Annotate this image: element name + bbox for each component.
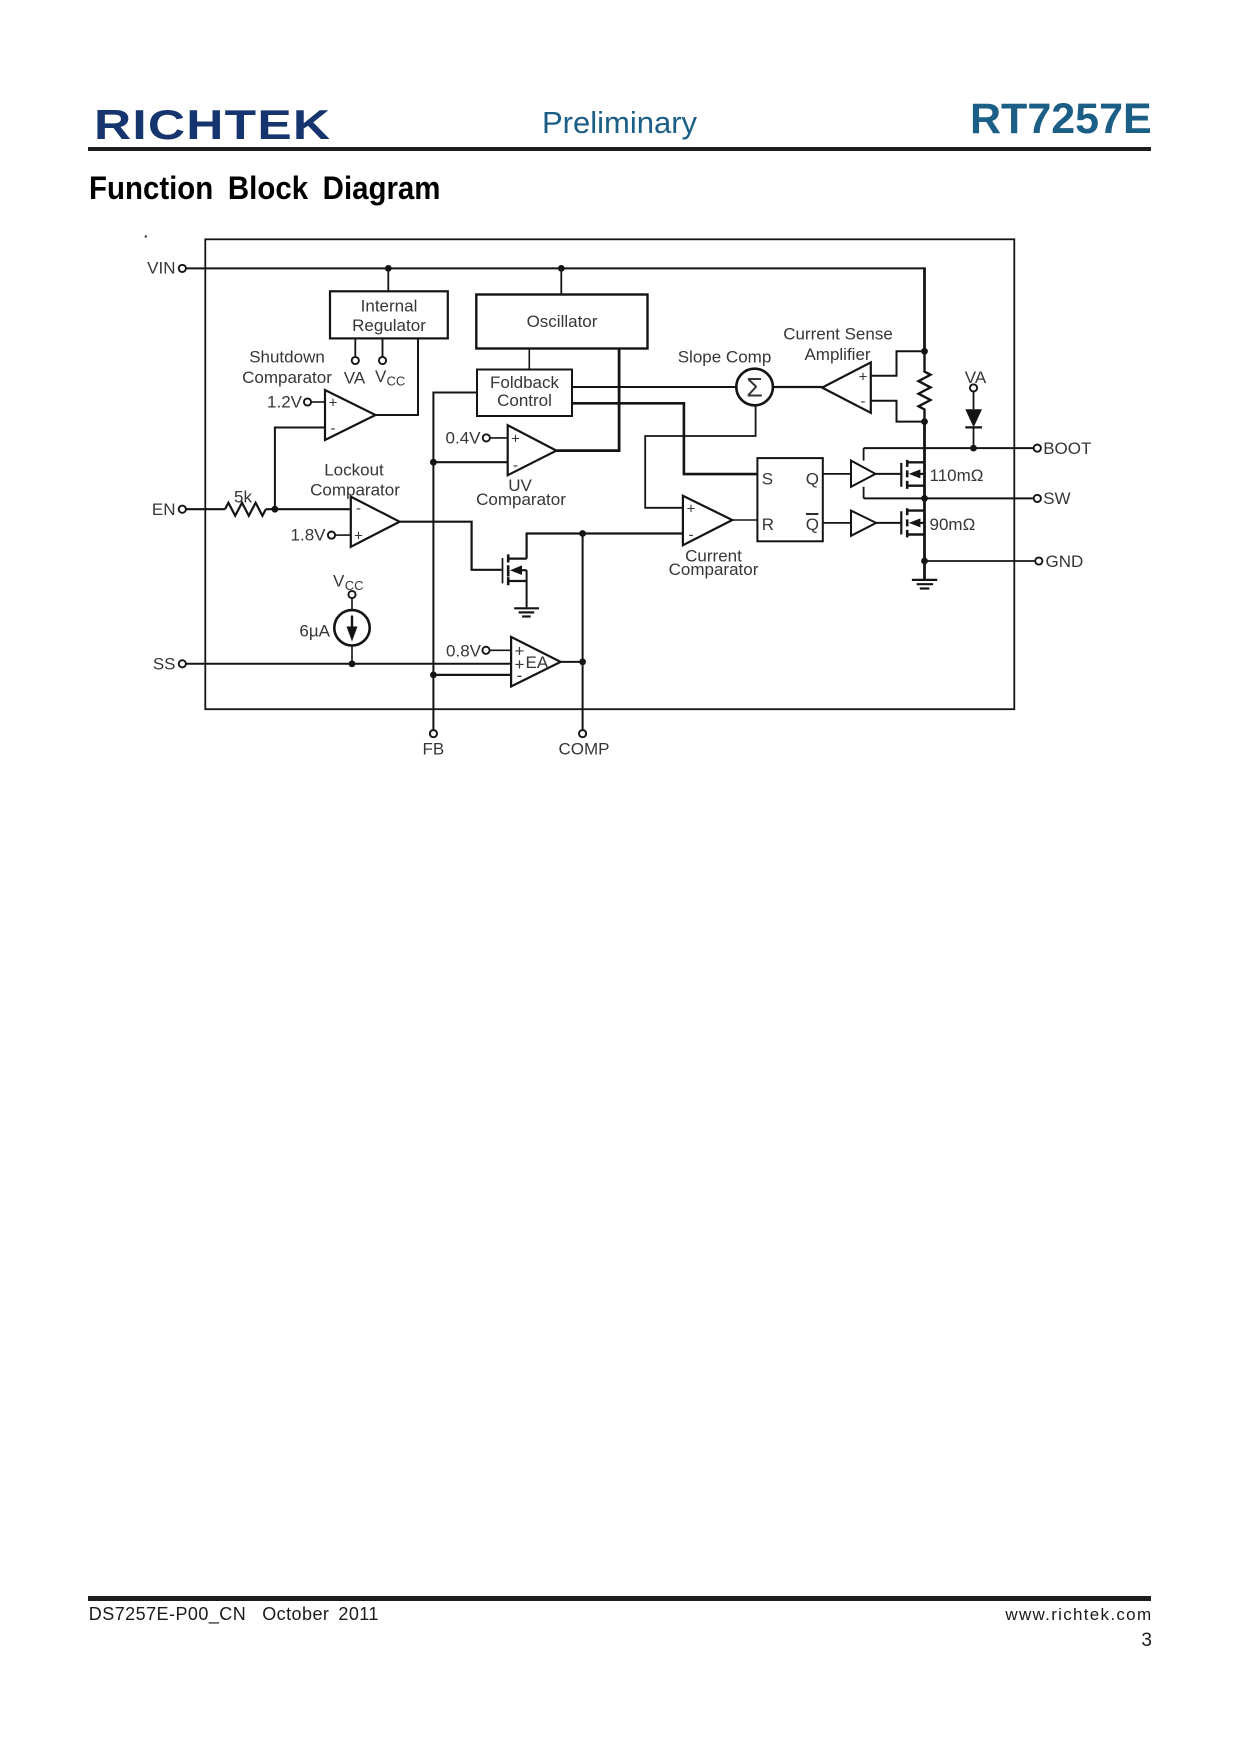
node VIN/regulator junction (385, 265, 392, 272)
svg-text:COMP: COMP (559, 739, 610, 758)
svg-text:SS: SS (153, 654, 176, 673)
svg-text:0.8V: 0.8V (446, 641, 482, 660)
node GND junction (921, 558, 928, 565)
wire VIN rail (186, 267, 924, 269)
svg-text:-: - (356, 500, 361, 517)
wire foldback to S input (572, 403, 757, 474)
wire Qbar to low driver (823, 522, 851, 524)
svg-text:Shutdown: Shutdown (249, 347, 325, 366)
svg-text:-: - (517, 666, 523, 685)
svg-text:1.8V: 1.8V (291, 526, 327, 545)
wire summer to current comparator plus (645, 405, 755, 508)
RICHTEK logo (94, 101, 331, 149)
op-amp lockout comparator (351, 497, 400, 547)
svg-text:-: - (513, 457, 518, 474)
svg-text:EA: EA (526, 653, 549, 672)
wire FB to EA minus (433, 674, 511, 676)
wire sense amp plus input (871, 351, 925, 376)
wire oscillator to foldback (528, 349, 530, 370)
header rule (88, 147, 1151, 152)
wire FB net to foldback (433, 393, 477, 730)
pin SS (153, 654, 186, 673)
pin FB (423, 730, 445, 758)
svg-text:FB: FB (423, 739, 445, 758)
svg-text:Internal: Internal (361, 297, 418, 316)
wire high driver to gate (876, 473, 901, 475)
footer right text (1005, 1605, 1152, 1625)
pin VCC of soft-start source (333, 572, 364, 599)
transistor discharge NMOS (503, 554, 527, 608)
node EA/COMP junction (579, 659, 586, 666)
wire EA output (561, 661, 583, 663)
op-amp current comparator (683, 496, 732, 545)
label Lockout Comparator (310, 461, 400, 500)
pin VIN (147, 258, 186, 277)
pin VCC of regulator (375, 338, 405, 388)
wire sense amp minus input (871, 401, 925, 422)
op-amp current sense amplifier (822, 362, 871, 412)
node sense resistor top (921, 348, 928, 355)
svg-text:0.4V: 0.4V (446, 429, 482, 448)
svg-text:Lockout: Lockout (324, 461, 384, 480)
pin BOOT (1034, 439, 1092, 458)
diode to BOOT (965, 392, 982, 445)
wire lockout output to discharge FET gate (400, 522, 502, 570)
wire foldback to summer (572, 386, 736, 388)
svg-text:VIN: VIN (147, 258, 175, 277)
label UV Comparator (476, 476, 566, 509)
svg-text:Slope Comp: Slope Comp (678, 348, 772, 367)
svg-text:V: V (333, 572, 345, 591)
driver high side (851, 448, 876, 498)
op-amp UV comparator (508, 425, 557, 475)
svg-text:V: V (375, 367, 387, 386)
wire Q to high driver (823, 473, 851, 475)
transistor low side NMOS 90mOhm (901, 508, 975, 537)
RT7257E part number (970, 95, 1152, 144)
wire UV output to oscillator (556, 449, 620, 452)
svg-text:Regulator: Regulator (352, 316, 426, 335)
pin GND (1035, 552, 1083, 571)
footer left text (89, 1604, 379, 1625)
node EN junction (272, 506, 279, 513)
ground for power stage (912, 580, 937, 589)
svg-text:Q: Q (806, 469, 819, 488)
node COMP line junction (579, 530, 586, 537)
svg-text:Foldback: Foldback (490, 373, 559, 392)
svg-text:Amplifier: Amplifier (804, 345, 870, 364)
node BOOT/diode junction (970, 445, 977, 452)
svg-text:Q: Q (806, 515, 819, 534)
svg-text:1.2V: 1.2V (267, 393, 303, 412)
pin COMP (559, 730, 610, 758)
pin EN (152, 500, 186, 519)
node FB/UV junction (430, 459, 437, 466)
summer sigma circle (736, 369, 773, 406)
wire FB to UV minus (433, 461, 507, 463)
svg-text:90mΩ: 90mΩ (930, 515, 976, 534)
label Current Sense Amplifier (783, 325, 893, 365)
sense resistor (919, 352, 931, 422)
resistor 5k (225, 488, 266, 516)
wire shutdown output to regulator (376, 338, 419, 415)
wire shutdown minus input (275, 428, 325, 510)
latch SR (757, 458, 822, 541)
svg-text:Comparator: Comparator (242, 368, 332, 387)
wire oscillator bottom vertical (618, 349, 621, 452)
svg-text:110mΩ: 110mΩ (930, 466, 984, 485)
svg-text:+: + (859, 368, 868, 385)
wire low driver to gate (876, 522, 900, 524)
block Foldback Control (477, 370, 572, 417)
op-amp error amplifier EA (511, 637, 560, 687)
svg-text:BOOT: BOOT (1043, 439, 1091, 458)
wire current comparator output to R (732, 519, 757, 521)
wire GND line (925, 560, 1035, 562)
pin 1.8V reference (291, 526, 351, 545)
svg-text:-: - (331, 420, 336, 437)
svg-text:Current Sense: Current Sense (783, 325, 893, 344)
svg-text:+: + (329, 395, 338, 412)
node sense resistor bottom (921, 418, 928, 425)
svg-text:6µA: 6µA (299, 622, 330, 641)
svg-text:-: - (689, 527, 694, 544)
svg-text:R: R (762, 515, 774, 534)
svg-text:VA: VA (344, 368, 366, 387)
Preliminary (542, 105, 697, 141)
wire SS to error amp (186, 663, 511, 665)
title (89, 170, 440, 207)
footer rule (88, 1596, 1151, 1601)
label Shutdown Comparator (242, 347, 332, 387)
node SS junction (349, 660, 356, 667)
IC boundary box (205, 239, 1014, 709)
ground for discharge NMOS (514, 608, 539, 616)
pin 0.8V reference (446, 641, 511, 660)
node SW junction (921, 495, 928, 502)
svg-text:+: + (354, 528, 363, 545)
block Oscillator (476, 295, 647, 349)
stray dot artifact (145, 235, 147, 237)
wire COMP vertical (582, 534, 584, 730)
transistor high side NMOS 110mOhm (901, 460, 983, 489)
svg-text:+: + (687, 500, 696, 517)
svg-text:S: S (762, 469, 773, 488)
svg-text:SW: SW (1043, 489, 1070, 508)
wire regulator feed (387, 268, 389, 291)
svg-text:Comparator: Comparator (669, 560, 759, 579)
footer page number (1141, 1630, 1152, 1652)
wire VIN vertical to sense resistor (923, 267, 926, 352)
block Internal Regulator (330, 291, 448, 338)
pin VA diode branch (965, 368, 987, 392)
wire oscillator feed (560, 268, 562, 294)
driver low side (851, 511, 876, 536)
label Current Comparator (669, 547, 759, 580)
svg-text:GND: GND (1046, 552, 1084, 571)
svg-text:Comparator: Comparator (310, 481, 400, 500)
pin 1.2V reference (267, 393, 325, 412)
node FB/EA junction (430, 672, 437, 679)
pin SW (1034, 489, 1071, 508)
svg-text:Comparator: Comparator (476, 490, 566, 509)
wire main drain rail (923, 422, 926, 580)
node VIN/oscillator junction (558, 265, 565, 272)
wire BOOT line (864, 447, 1034, 449)
op-amp shutdown comparator (325, 390, 376, 440)
svg-text:CC: CC (387, 374, 406, 389)
svg-text:Oscillator: Oscillator (527, 312, 598, 331)
svg-text:Control: Control (497, 391, 552, 410)
svg-text:Σ: Σ (746, 373, 763, 403)
svg-text:+: + (511, 431, 520, 448)
pin VA of regulator (344, 338, 366, 387)
wire SW line (864, 497, 1034, 499)
svg-text:EN: EN (152, 500, 176, 519)
wire EN to resistor (186, 508, 225, 510)
pin 0.4V reference (446, 429, 508, 448)
current source 6uA (299, 598, 369, 664)
wire EN node to lockout (266, 508, 351, 510)
svg-text:-: - (861, 393, 866, 410)
wire comp minus line (527, 534, 683, 559)
wire summer output (773, 386, 823, 388)
